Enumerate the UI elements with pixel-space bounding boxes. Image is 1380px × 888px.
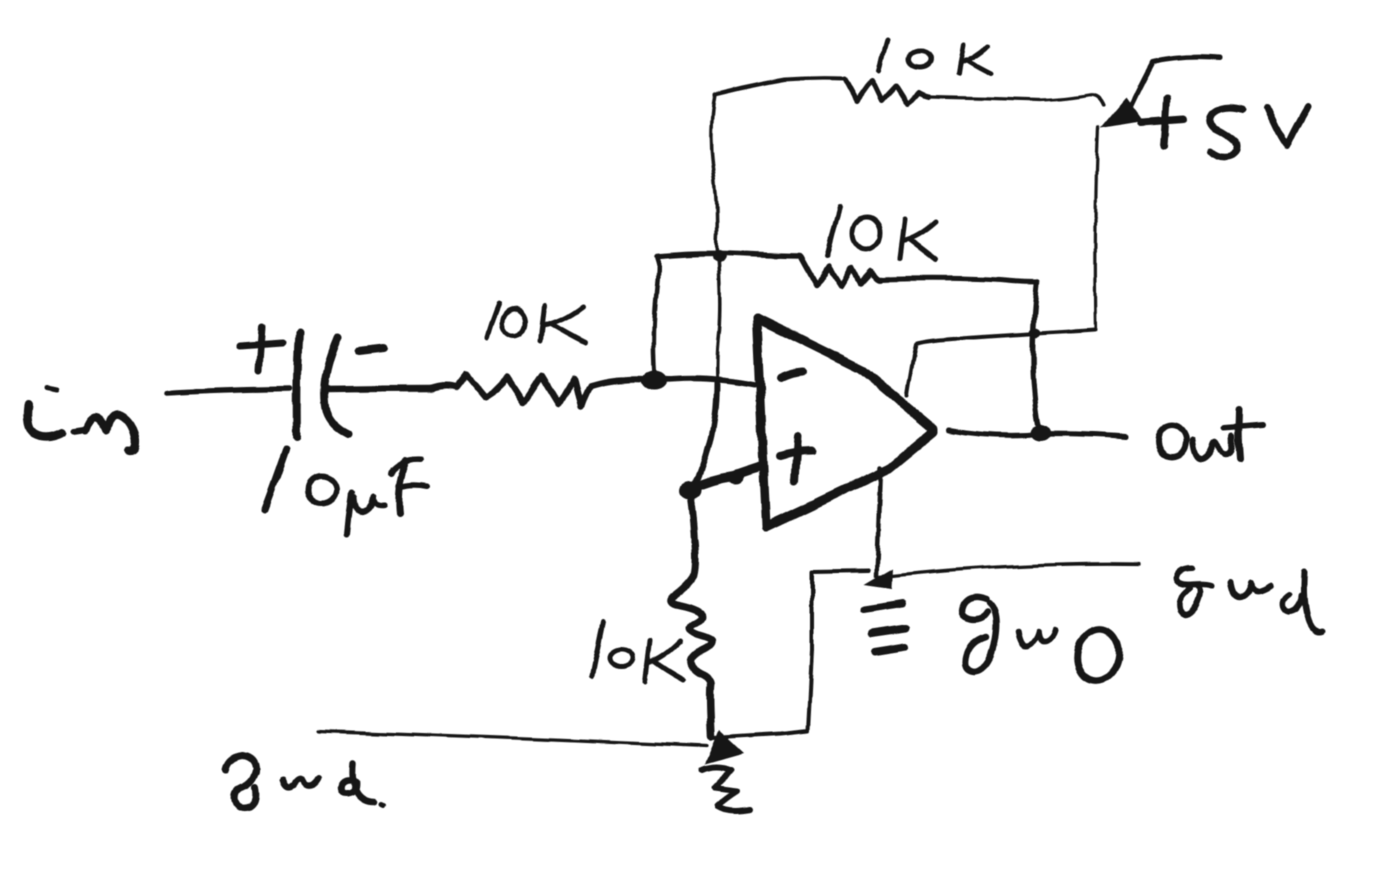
wire R4 to +5V corner xyxy=(929,95,1103,105)
label gnd (right) xyxy=(1176,568,1322,631)
resistor R5 10K zigzag xyxy=(670,541,712,737)
wire feedback right leg down to output node xyxy=(1033,282,1039,428)
value label 10K (R5) xyxy=(592,622,684,681)
capacitor C1 xyxy=(297,332,349,438)
wire +5V rail to op-amp V+ pin xyxy=(907,330,1096,396)
crossing blob at feedback wire xyxy=(712,250,726,262)
arrowhead at +5V corner xyxy=(1100,97,1143,128)
label gnd (bottom left) xyxy=(226,755,383,808)
ground symbol bottom (squiggle) xyxy=(702,767,750,810)
op-amp U1 triangle xyxy=(757,318,934,527)
wire gnd rail bottom left xyxy=(318,731,707,746)
junction node B (output node) xyxy=(1030,425,1050,441)
value label 10K (R1) xyxy=(487,303,586,343)
wire capacitor C1 to resistor R1 xyxy=(326,388,432,389)
+5V supply stub xyxy=(1128,57,1220,112)
value label 10uF (C1) xyxy=(264,449,427,534)
wire bias divider vertical lower xyxy=(691,381,717,487)
wire in to capacitor C1 xyxy=(166,389,290,393)
crossing blob where feedback leg crosses V+ rail xyxy=(1029,328,1041,338)
wire R5 bottom to gnd rail (right and up) xyxy=(713,571,868,738)
op-amp U1 minus input mark xyxy=(781,372,803,378)
label in (input net) xyxy=(27,387,136,451)
wire node A to op-amp inverting input xyxy=(655,379,754,385)
wire gnd rail right xyxy=(878,564,1140,577)
arrowhead at gnd junction under op-amp xyxy=(864,568,893,589)
wire +5V rail right vertical xyxy=(1095,127,1098,330)
wire R2 to feedback right corner xyxy=(880,278,1037,282)
resistor R4 10K (pull-up to +5V) xyxy=(845,79,929,105)
label +5V xyxy=(1141,99,1308,157)
wire bias divider vertical upper (crosses feedback and input wires) xyxy=(711,95,719,381)
label out xyxy=(1158,410,1263,460)
value label 10K (R2) xyxy=(827,206,936,260)
wire feedback top segment xyxy=(658,253,800,256)
wire op-amp ground pin down xyxy=(876,468,880,576)
resistor R2 10K (feedback) xyxy=(801,257,880,286)
resistor R1 10K (input) xyxy=(430,374,648,407)
wire op-amp output to out xyxy=(949,430,1126,437)
capacitor C1 plus polarity mark xyxy=(239,327,283,371)
arrowhead at bottom ground junction xyxy=(705,730,744,764)
junction node A (inverting input node) xyxy=(642,371,668,391)
value label 10K (R4) xyxy=(879,41,991,74)
wire node A up (feedback left leg) xyxy=(654,256,658,375)
wire pull-up top-left corner and top segment xyxy=(715,79,845,95)
junction node C (non-inverting bias node) xyxy=(679,481,701,499)
label gnD (near ground symbol) xyxy=(961,597,1124,685)
ground symbol near op-amp (three bars) xyxy=(864,603,906,652)
blob on plus input wire xyxy=(728,471,744,483)
wire node C to op-amp plus input xyxy=(690,466,763,489)
op-amp U1 plus input mark xyxy=(780,436,812,480)
resistor R5 10K (bias to ground) top lead xyxy=(690,490,695,541)
capacitor C1 minus polarity mark xyxy=(358,348,385,351)
